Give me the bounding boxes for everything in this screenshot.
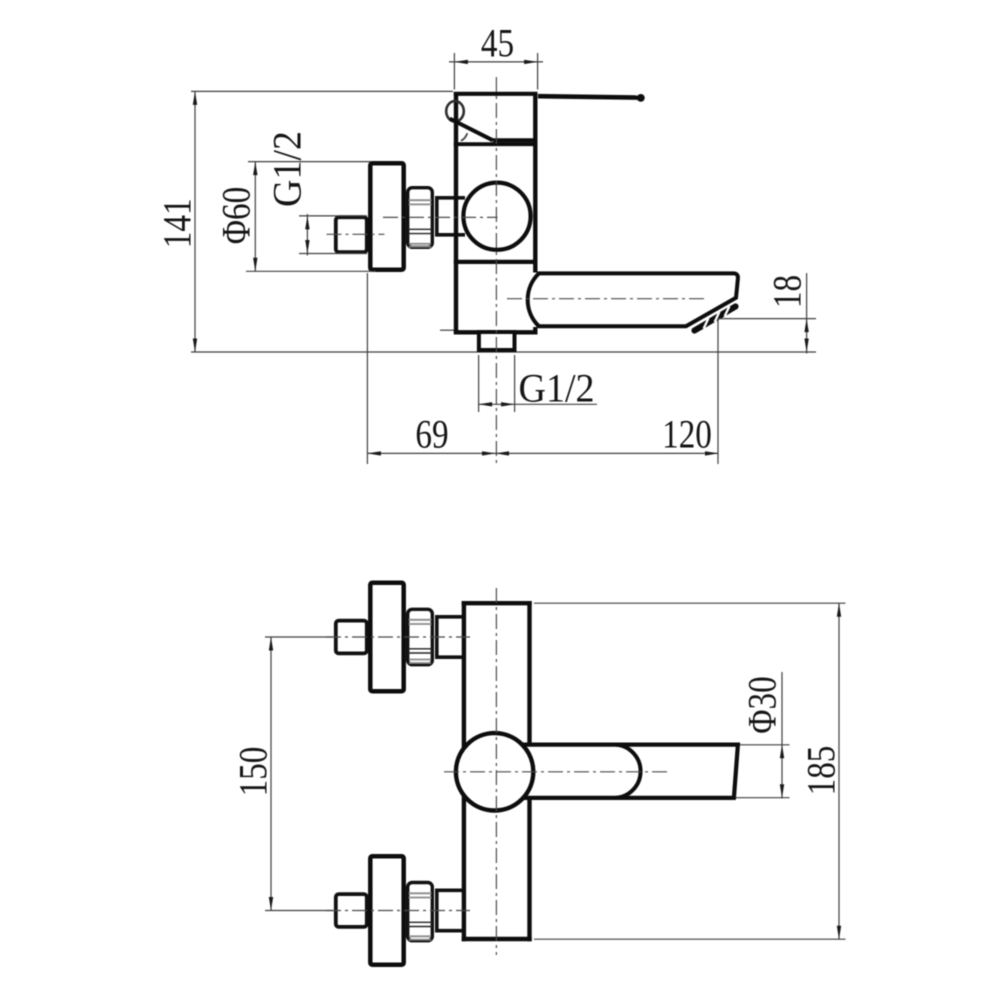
dim G1/2 left: dimension line bbox=[306, 214, 308, 256]
arrow G1/2L bottom bbox=[305, 240, 309, 254]
centerline: body vertical, plan bbox=[495, 588, 497, 955]
arrow 45 right bbox=[524, 60, 538, 64]
dim 45: extension lines bbox=[453, 53, 455, 90]
arrow 141 bottom bbox=[193, 339, 197, 353]
faucet body, top view: left edge bbox=[454, 92, 458, 334]
dim phi30: extension lines bbox=[740, 744, 790, 746]
svg-text:G1/2: G1/2 bbox=[266, 131, 310, 207]
svg-text:G1/2: G1/2 bbox=[519, 367, 595, 411]
ball joint bbox=[456, 733, 533, 810]
svg-text:Φ60: Φ60 bbox=[214, 187, 259, 244]
thread hatch bottom, nut top view bbox=[409, 243, 431, 245]
svg-text:185: 185 bbox=[799, 746, 844, 796]
handle bar, plan bbox=[523, 745, 738, 798]
centerline: body vertical, top view bbox=[495, 77, 497, 464]
svg-text:45: 45 bbox=[481, 21, 514, 66]
wall block (eccentric union pipe end), top view bbox=[336, 217, 367, 252]
wire: small ledge line left of body bottom bbox=[440, 329, 455, 331]
hex nut lower, plan bbox=[408, 883, 433, 941]
hex nut, top view bbox=[408, 188, 433, 248]
dim 18: dimension line bbox=[806, 273, 808, 354]
thread hatch top, upper nut plan bbox=[409, 619, 432, 621]
arrow 120 left bbox=[496, 451, 510, 455]
arrow 150 top bbox=[269, 637, 273, 651]
wall flange, top view bbox=[370, 163, 403, 269]
valve cartridge circle bbox=[463, 183, 530, 250]
faucet body, plan: top edge bbox=[462, 601, 532, 605]
dim 45: dimension line bbox=[449, 61, 543, 63]
aerator white slashes bbox=[704, 318, 709, 328]
aerator band at spout tip bbox=[695, 307, 736, 331]
arrow G1/2B left bbox=[479, 402, 493, 406]
dim 69/120: dimension line bbox=[367, 452, 718, 454]
svg-text:69: 69 bbox=[415, 412, 448, 457]
connector upper, plan bbox=[437, 617, 464, 657]
thread hatch top, nut top view bbox=[409, 199, 432, 201]
centerline: ball/handle bbox=[444, 771, 667, 773]
dim G1/2 bottom: extension lines bbox=[478, 355, 480, 412]
body section line below valve bbox=[454, 260, 538, 264]
faucet body, plan: bottom edge bbox=[462, 937, 532, 941]
centerline: upper mount bbox=[326, 636, 470, 638]
dim phi60: dimension line bbox=[254, 162, 256, 272]
handle grip end arc bbox=[616, 745, 641, 798]
arrow 141 top bbox=[193, 91, 197, 105]
handle skirt diagonal bbox=[450, 119, 493, 141]
connector piece, top view bbox=[437, 198, 465, 235]
nut chamfer lines, lower nut plan bbox=[408, 921, 433, 923]
handle skirt small arc bbox=[461, 133, 467, 141]
thread hatch top, lower nut plan bbox=[409, 892, 432, 894]
arrow 18 bottom bbox=[804, 339, 808, 353]
dim phi30: dimension line bbox=[781, 672, 783, 799]
faucet body, top view: right edge upper bbox=[533, 92, 537, 273]
svg-text:141: 141 bbox=[155, 198, 200, 248]
dim 141: dimension line bbox=[194, 91, 196, 352]
shower outlet drop pipe bbox=[479, 332, 515, 350]
arrow 120 right bbox=[705, 451, 719, 455]
handle lever end knob bbox=[637, 94, 645, 102]
extension line: spout tip vertical bbox=[717, 319, 719, 464]
dim 150: dimension line bbox=[270, 637, 272, 911]
faucet body, top view: top edge bbox=[454, 92, 538, 96]
nut chamfer lines, upper nut plan bbox=[408, 648, 433, 650]
thread hatch bottom, upper nut plan bbox=[409, 659, 431, 661]
centerline: spout bbox=[507, 298, 705, 300]
arrow G1/2B right bbox=[501, 402, 514, 406]
handle lever bar, top view bbox=[538, 96, 638, 97]
dim G1/2 bottom: dimension line + shelf bbox=[479, 403, 597, 405]
hex nut upper, plan bbox=[408, 609, 433, 664]
arrow 69 left bbox=[367, 451, 381, 455]
arrow 185 top bbox=[837, 603, 841, 617]
arrow phi30 top bbox=[780, 745, 784, 759]
svg-text:150: 150 bbox=[231, 747, 276, 797]
wall block upper, plan bbox=[336, 621, 367, 654]
wall block lower, plan bbox=[336, 894, 367, 927]
spout outline, top view bbox=[528, 273, 738, 326]
svg-text:18: 18 bbox=[765, 275, 810, 308]
svg-text:120: 120 bbox=[662, 412, 712, 457]
extension line: wall plane vertical bbox=[366, 273, 368, 464]
arrow G1/2L top bbox=[305, 216, 309, 230]
arrow 69 right bbox=[482, 451, 496, 455]
dim G1/2 left: extension lines bbox=[299, 215, 367, 217]
arrows top view bbox=[193, 60, 809, 456]
centerline: lower mount bbox=[326, 910, 470, 912]
faucet body, plan: right edge bbox=[527, 601, 531, 941]
connector lower, plan bbox=[437, 890, 464, 930]
arrow phi30 bottom bbox=[780, 784, 784, 798]
arrow phi60 bottom bbox=[253, 258, 257, 272]
arrow 185 bottom bbox=[837, 926, 841, 940]
handle cap bottom line (right half) bbox=[493, 138, 538, 142]
wall flange lower, plan bbox=[370, 856, 403, 964]
dim 185: dimension line bbox=[838, 603, 840, 939]
wire: bottom plane line (141/18 dim extension) bbox=[191, 351, 816, 353]
arrow 18 top bbox=[804, 319, 808, 333]
dim 185: extension lines bbox=[534, 602, 846, 604]
arrow phi60 top bbox=[253, 162, 257, 176]
centerline: valve horizontal bbox=[383, 216, 498, 218]
centerline: wall block bbox=[327, 233, 385, 235]
wire: extension line top (141 dim, body top plane) bbox=[191, 90, 453, 92]
arrow 45 left bbox=[454, 60, 468, 64]
dim 150: solid ext segments bbox=[265, 636, 333, 638]
body bottom edge bbox=[454, 330, 538, 334]
faucet body, plan: left edge bbox=[462, 601, 466, 941]
body shoulder line (full width) bbox=[454, 142, 538, 146]
arrow 150 bottom bbox=[269, 897, 273, 911]
arrows bottom view bbox=[269, 603, 841, 939]
dim 18: extension line top bbox=[718, 318, 817, 320]
thread hatch bottom, lower nut plan bbox=[409, 935, 431, 937]
wall flange upper, plan bbox=[370, 583, 403, 691]
faucet body, top view: right edge lower bbox=[533, 327, 537, 334]
handle pivot pin ellipse bbox=[446, 101, 464, 121]
nut chamfer lines, top view bbox=[408, 228, 433, 230]
dim phi60: extension lines bbox=[248, 161, 371, 163]
svg-text:Φ30: Φ30 bbox=[740, 676, 785, 733]
